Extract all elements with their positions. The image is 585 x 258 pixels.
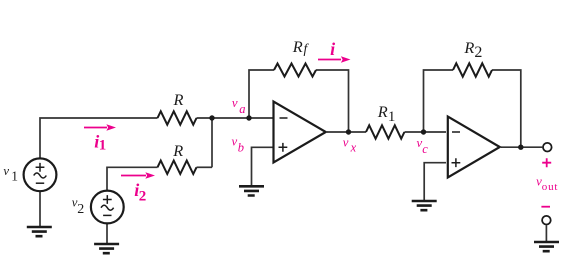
svg-text:1: 1	[11, 168, 18, 183]
svg-text:R: R	[377, 102, 388, 121]
svg-text:v: v	[232, 134, 238, 148]
svg-text:b: b	[238, 141, 244, 155]
svg-text:1: 1	[388, 109, 396, 125]
svg-text:a: a	[239, 102, 245, 116]
svg-text:out: out	[542, 181, 558, 193]
svg-text:R: R	[173, 90, 184, 109]
svg-text:v: v	[3, 164, 9, 178]
svg-text:i: i	[330, 39, 335, 59]
svg-text:x: x	[350, 141, 357, 155]
svg-text:v: v	[232, 96, 238, 110]
svg-text:c: c	[422, 142, 428, 156]
svg-text:R: R	[463, 38, 474, 57]
svg-text:2: 2	[474, 44, 482, 61]
svg-text:1: 1	[99, 137, 107, 153]
svg-text:R: R	[292, 37, 303, 56]
svg-text:R: R	[172, 141, 183, 160]
svg-text:2: 2	[77, 202, 84, 217]
svg-text:v: v	[343, 136, 349, 150]
svg-text:2: 2	[139, 188, 147, 204]
